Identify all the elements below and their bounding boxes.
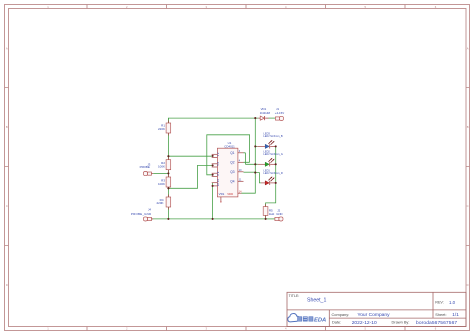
svg-text:EDA: EDA: [314, 318, 326, 324]
pin 10: [238, 171, 244, 173]
node divider tap 2: [167, 187, 169, 189]
pin 1: [212, 153, 218, 155]
node gate2 inputs: [212, 164, 214, 166]
title block: [287, 292, 466, 326]
wire: Q3 output to column: [244, 171, 256, 173]
op-amp U1 CD4011: [212, 141, 244, 202]
wire: V+ top rail from R1 to diode: [168, 118, 258, 123]
LED LED1 red: [261, 168, 283, 185]
wire: J3 probe to divider: [153, 172, 168, 174]
LED LED2 green: [258, 149, 283, 166]
pin 12: [212, 182, 218, 184]
wire: Q2 output to LED2 anode: [244, 162, 258, 164]
resistor R4: [156, 195, 170, 210]
node LED2 anode: [254, 163, 256, 165]
pin 4: [238, 161, 244, 163]
svg-text:220K: 220K: [158, 127, 165, 131]
svg-text:Q2: Q2: [230, 160, 234, 164]
svg-text:1 2: 1 2: [216, 152, 220, 156]
svg-text:1N4148: 1N4148: [260, 111, 271, 115]
svg-text:Company:: Company:: [332, 312, 350, 317]
svg-text:5 6: 5 6: [216, 161, 220, 165]
node LED2 cathode: [275, 163, 277, 165]
svg-text:REV:: REV:: [435, 301, 443, 305]
pin 5: [212, 163, 218, 165]
resistor R5: [263, 204, 275, 217]
wire: ground rail to J2: [266, 218, 275, 220]
svg-text:Sheet:: Sheet:: [435, 312, 446, 317]
svg-text:A: A: [467, 47, 469, 51]
resistor R2: [158, 157, 171, 172]
wire: resistor chain vertical: [167, 118, 169, 219]
svg-text:VDD: VDD: [227, 192, 233, 196]
svg-text:D: D: [467, 283, 469, 287]
pin 9: [212, 175, 218, 177]
svg-text:Q4: Q4: [230, 179, 234, 183]
wire: Q1 output stub: [244, 153, 246, 165]
svg-text:1kΩ: 1kΩ: [269, 212, 275, 216]
svg-text:100K: 100K: [158, 165, 165, 169]
svg-text:C: C: [467, 204, 469, 208]
node gate1 inputs: [212, 155, 214, 157]
wire: R5 bottom lead to ground rail: [265, 215, 267, 219]
connector J1 +4-15V: [275, 107, 284, 121]
resistor R1: [158, 121, 171, 136]
svg-text:CD4011: CD4011: [224, 144, 235, 148]
wire: ground rail: [152, 218, 266, 220]
svg-text:Date:: Date:: [332, 320, 341, 325]
svg-text:LED-TH-5mm_B: LED-TH-5mm_B: [263, 134, 282, 138]
svg-text:+4-15V: +4-15V: [275, 111, 284, 115]
wire: jog to LED1 anode: [255, 173, 261, 183]
svg-text:D: D: [6, 283, 8, 287]
node gate3 inputs: [212, 174, 214, 176]
pin 13: [212, 185, 218, 187]
pin 3: [238, 152, 244, 154]
pin 11: [238, 180, 244, 182]
node divider tap 1: [167, 155, 169, 157]
svg-text:B: B: [467, 125, 469, 129]
node LED1 cathode: [275, 182, 277, 184]
svg-text:1.0: 1.0: [449, 300, 456, 305]
wire: divider tap to gate1 inputs: [168, 155, 211, 157]
svg-text:VSS: VSS: [219, 192, 225, 196]
node probe input: [167, 172, 169, 174]
node gate4 inputs: [212, 185, 214, 187]
svg-text:LED-TH-5mm_G: LED-TH-5mm_G: [263, 152, 282, 156]
wire: LED cathode column to R5: [266, 146, 276, 206]
svg-text:TITLE:: TITLE:: [289, 294, 300, 298]
node LED3 anode: [254, 145, 256, 147]
svg-text:100K: 100K: [158, 182, 165, 186]
svg-text:Your Company: Your Company: [357, 312, 390, 318]
wire: diode to J1: [269, 117, 276, 119]
svg-text:1/1: 1/1: [452, 312, 459, 317]
LED LED3 blue: [257, 131, 283, 148]
svg-text:PROBE: PROBE: [140, 165, 150, 169]
svg-text:GND: GND: [276, 212, 282, 216]
logo: [288, 314, 326, 324]
wire: LED3 anode tap: [255, 145, 257, 147]
node V+ at diode tap: [254, 117, 256, 119]
svg-text:Q3: Q3: [230, 170, 234, 174]
wire: feedback loop Q1 to gate3 inputs: [207, 135, 250, 175]
pin 7 VSS: [220, 197, 222, 202]
connector J4 PROBE_GND: [131, 208, 153, 221]
svg-text:C: C: [6, 204, 8, 208]
resistor R3: [158, 175, 171, 190]
node LED3 cathode: [275, 145, 277, 147]
pin 2: [212, 157, 218, 159]
diode VD1 1N4148: [258, 107, 270, 120]
pin 6: [212, 166, 218, 168]
pin 14 VDD: [238, 192, 242, 194]
svg-text:220K: 220K: [156, 201, 163, 205]
wire: V+ column to VDD: [242, 118, 256, 193]
svg-text:Sheet_1: Sheet_1: [307, 298, 326, 304]
connector J2 GND: [275, 209, 283, 222]
node LED1 anode jog: [254, 172, 256, 174]
pin 8: [212, 172, 218, 174]
wire: lower divider tap to gate2 inputs: [168, 165, 211, 188]
svg-text:2022-12-10: 2022-12-10: [352, 320, 377, 326]
node ground at R4: [167, 218, 169, 220]
svg-text:8 9: 8 9: [216, 171, 220, 175]
wire: gate4 inputs to ground: [212, 183, 214, 219]
svg-text:LED-TH-5mm_R: LED-TH-5mm_R: [263, 171, 282, 175]
node ground at R5: [265, 218, 267, 220]
node ground at gate4 tie: [212, 218, 214, 220]
svg-text:Q1: Q1: [230, 151, 234, 155]
svg-text:Drawn By:: Drawn By:: [392, 320, 410, 325]
connector J3 PROBE: [140, 162, 154, 175]
svg-text:A: A: [6, 47, 8, 51]
svg-text:boroda567567567: boroda567567567: [416, 320, 457, 326]
svg-text:12 13: 12 13: [216, 179, 220, 186]
svg-text:B: B: [6, 125, 8, 129]
svg-text:PROBE_GND: PROBE_GND: [131, 212, 152, 216]
